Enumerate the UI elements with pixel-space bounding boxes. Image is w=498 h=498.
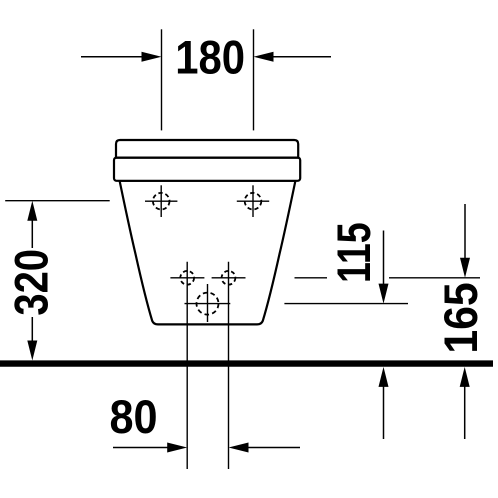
dimension 165 extension line left segment (holes level) xyxy=(295,277,328,279)
dimension 180 extension line left xyxy=(161,29,163,130)
dimension label 80 xyxy=(109,390,157,443)
mounting hole top-right xyxy=(237,185,269,217)
dimension 180 extension line right xyxy=(253,29,255,130)
dimension 165 lower arrow below floor xyxy=(460,367,470,439)
svg-text:180: 180 xyxy=(175,32,245,84)
dimension 115 extension line (drain level) xyxy=(284,303,408,305)
dimension 180 right arrow xyxy=(254,52,332,62)
extension line left hole vertical (80 dim) xyxy=(186,262,188,469)
svg-text:320: 320 xyxy=(6,249,58,316)
svg-text:115: 115 xyxy=(328,222,381,283)
dimension 165 upper line with down arrow xyxy=(460,204,470,278)
fixing hole bottom-right xyxy=(212,271,246,285)
fixing hole bottom-left xyxy=(170,271,204,285)
rim band xyxy=(114,158,300,181)
dimension label 180 xyxy=(175,32,245,84)
dimension label 115 xyxy=(328,222,381,283)
dimension 320 extension line top xyxy=(5,200,110,202)
bidet bowl body xyxy=(120,181,296,325)
dimension 320 line lower segment with down arrow xyxy=(27,317,37,361)
floor line xyxy=(0,360,493,366)
extension line right hole vertical (80 dim) xyxy=(228,262,230,469)
dimension 80 left arrow xyxy=(113,443,187,453)
dimension 320 line upper segment with up arrow xyxy=(27,201,37,248)
svg-text:165: 165 xyxy=(434,282,487,353)
dimension label 320 xyxy=(6,249,58,316)
dimension 180 left arrow xyxy=(81,52,162,62)
svg-text:80: 80 xyxy=(109,390,157,443)
drain hole center xyxy=(185,284,231,322)
dimension 115 upper line with down arrow xyxy=(379,231,389,304)
lid (top cover) xyxy=(116,140,298,158)
dimension label 165 xyxy=(434,282,487,353)
dimension 115 lower arrow below floor xyxy=(379,367,389,439)
dimension 80 right arrow xyxy=(229,443,301,453)
dimension 165 extension line right segment xyxy=(389,277,480,279)
mounting hole top-left xyxy=(145,185,177,217)
